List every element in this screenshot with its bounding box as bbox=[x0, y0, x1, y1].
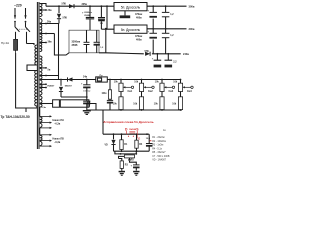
filament winding LN1 bbox=[40, 117, 42, 122]
svg-text:+: + bbox=[148, 31, 150, 34]
tap 75 bbox=[40, 75, 59, 77]
secondary winding S6 bbox=[40, 43, 42, 51]
svg-text:~6,3в: ~6,3в bbox=[54, 141, 61, 144]
choke L2 box bbox=[114, 25, 147, 33]
svg-text:1N4007: 1N4007 bbox=[65, 85, 73, 88]
svg-text:Пр 2А: Пр 2А bbox=[1, 41, 9, 45]
choke L1 box bbox=[114, 3, 147, 11]
pot divider P1 bbox=[120, 79, 122, 81]
rail1 300v bbox=[147, 5, 187, 7]
svg-text:См4: См4 bbox=[187, 90, 192, 93]
svg-text:470мк: 470мк bbox=[135, 13, 143, 16]
svg-text:4: 4 bbox=[128, 135, 130, 138]
svg-text:1000мк: 1000мк bbox=[83, 90, 90, 92]
24v wire from tap bbox=[46, 79, 96, 81]
svg-text:36в: 36в bbox=[48, 41, 53, 44]
svg-text:~220: ~220 bbox=[14, 3, 22, 7]
svg-text:30в: 30в bbox=[47, 21, 52, 24]
rail1 cap C3a bbox=[152, 5, 154, 7]
svg-text:+: + bbox=[148, 9, 150, 12]
svg-text:См1: См1 bbox=[128, 91, 133, 93]
tap 36v bbox=[40, 42, 46, 44]
svg-text:300в: 300в bbox=[189, 4, 195, 8]
svg-text:10,0: 10,0 bbox=[146, 138, 151, 140]
svg-text:100к: 100к bbox=[102, 93, 108, 95]
svg-text:5П6: 5П6 bbox=[145, 51, 150, 53]
subcircuit top wire bbox=[103, 133, 149, 135]
plug prong N bbox=[25, 8, 27, 19]
pot divider P4 bbox=[180, 79, 182, 81]
wire fuse to primary bbox=[16, 53, 37, 108]
cap C1 2200uF bbox=[89, 5, 91, 7]
svg-text:~6,3в: ~6,3в bbox=[54, 123, 61, 126]
cap C8 bbox=[86, 80, 88, 85]
svg-text:240в: 240в bbox=[183, 52, 189, 56]
filament winding LN2 bbox=[40, 123, 42, 127]
svg-text:См2: См2 bbox=[148, 91, 153, 93]
mid wire bbox=[114, 150, 150, 152]
ground C13 bbox=[133, 171, 139, 173]
primary winding bbox=[35, 45, 37, 65]
wire to choke2 bbox=[106, 5, 108, 7]
tap 5v bbox=[40, 67, 46, 69]
svg-text:250В: 250В bbox=[84, 15, 90, 17]
node 24v bbox=[86, 79, 88, 81]
svg-text:С7 - 500 х 400В: С7 - 500 х 400В bbox=[152, 155, 170, 158]
ground R3 bbox=[121, 168, 123, 170]
svg-text:5п. Дроссель: 5п. Дроссель bbox=[121, 28, 141, 32]
svg-text:1в: 1в bbox=[163, 129, 166, 132]
tap b bbox=[40, 87, 46, 89]
secondary winding S4 bbox=[40, 24, 42, 33]
drop to rail3 bbox=[105, 29, 107, 53]
resistor Rb1 bbox=[119, 97, 123, 110]
svg-text:+: + bbox=[81, 82, 83, 85]
transformer T1 core bbox=[36, 2, 38, 149]
switch SA1 bbox=[15, 27, 20, 32]
rail2 300v bbox=[147, 28, 187, 30]
svg-text:См3: См3 bbox=[169, 91, 174, 93]
diode VD5 vertical bbox=[60, 80, 62, 86]
svg-text:1,2: 1,2 bbox=[100, 47, 104, 49]
svg-text:+: + bbox=[152, 57, 154, 60]
svg-text:2,2: 2,2 bbox=[173, 62, 177, 64]
resistor R4 bbox=[136, 134, 138, 140]
secondary winding S3 bbox=[40, 19, 42, 24]
svg-text:5П6: 5П6 bbox=[63, 17, 68, 20]
secondary winding S12 bbox=[40, 88, 42, 95]
svg-text:1,2: 1,2 bbox=[100, 23, 104, 25]
secondary winding S14 bbox=[40, 104, 42, 107]
choke L1 ground bbox=[124, 11, 126, 16]
tap 30v to diode bbox=[40, 23, 59, 25]
cap C11 bbox=[86, 101, 88, 107]
svg-text:10k: 10k bbox=[133, 103, 138, 105]
cap C5 film bbox=[86, 30, 88, 42]
svg-text:1,2: 1,2 bbox=[170, 14, 174, 16]
filament winding LV2 bbox=[40, 141, 42, 146]
resistor R1 bbox=[121, 134, 123, 140]
svg-text:24в: 24в bbox=[83, 76, 88, 79]
secondary winding S5 bbox=[40, 34, 42, 42]
svg-text:10k: 10k bbox=[154, 103, 159, 105]
svg-text:1N4007: 1N4007 bbox=[47, 85, 55, 88]
svg-text:10k: 10k bbox=[155, 82, 160, 84]
svg-text:5п. Дроссель: 5п. Дроссель bbox=[121, 6, 141, 10]
box F3 bbox=[53, 100, 60, 107]
bottom bus bbox=[87, 109, 182, 111]
svg-text:10k: 10k bbox=[114, 82, 119, 84]
winding link2 bbox=[39, 128, 41, 135]
secondary winding S1 bbox=[40, 4, 42, 10]
fuse Пр 2А bbox=[14, 39, 18, 50]
filament taps LV bbox=[40, 134, 51, 136]
rail3 wire bbox=[99, 53, 144, 54]
cap C9 bbox=[83, 100, 90, 102]
svg-text:S: S bbox=[136, 128, 139, 132]
diode VD3 bbox=[145, 52, 150, 56]
svg-text:R4 - 5,1к: R4 - 5,1к bbox=[152, 147, 163, 150]
svg-text:300в: 300в bbox=[189, 27, 195, 31]
svg-text:Исправления слева 5п Дроссель: Исправления слева 5п Дроссель bbox=[103, 120, 154, 124]
svg-text:350В: 350В bbox=[72, 44, 78, 47]
svg-text:20в: 20в bbox=[48, 9, 53, 12]
svg-text:VD - 1N4007: VD - 1N4007 bbox=[152, 159, 166, 162]
svg-text:10k: 10k bbox=[134, 82, 139, 84]
svg-text:1,2: 1,2 bbox=[170, 35, 174, 37]
resistor R3 bbox=[120, 161, 123, 169]
rail1 cap C3b bbox=[165, 5, 167, 7]
svg-text:6,3в: 6,3в bbox=[42, 107, 47, 109]
tap 20v bbox=[40, 9, 46, 11]
tap top lead bbox=[40, 4, 46, 7]
tap a bbox=[40, 83, 46, 85]
svg-text:R1 - 20кОм: R1 - 20кОм bbox=[152, 136, 165, 139]
rail3 cap C7a bbox=[157, 53, 159, 55]
subcircuit feed bbox=[102, 110, 104, 134]
primary bottom tick bbox=[25, 108, 27, 112]
svg-text:R1: R1 bbox=[124, 144, 128, 146]
svg-text:10k: 10k bbox=[113, 103, 118, 105]
red FET symbol bbox=[127, 131, 138, 138]
rail3 cap C7b bbox=[167, 53, 169, 55]
diode VD2 bbox=[58, 5, 60, 7]
svg-text:10k: 10k bbox=[173, 82, 178, 84]
svg-text:R5 - 33кОм*: R5 - 33кОм* bbox=[152, 151, 165, 154]
wiper wire bbox=[130, 161, 137, 165]
cap C10 bbox=[107, 99, 113, 101]
cap C12 bbox=[148, 134, 150, 143]
wire switch to primary top bbox=[27, 44, 35, 46]
secondary winding S8 bbox=[40, 68, 42, 75]
plug prong L bbox=[14, 8, 16, 19]
winding link bbox=[39, 107, 41, 116]
wire pot left to R3 bbox=[119, 156, 125, 158]
svg-text:R4: R4 bbox=[139, 143, 143, 146]
svg-text:R2 - 100кОм: R2 - 100кОм bbox=[152, 140, 166, 143]
svg-text:470мк: 470мк bbox=[135, 35, 143, 38]
resistor Rb4 bbox=[178, 97, 182, 110]
svg-text:R5: R5 bbox=[131, 160, 135, 162]
HV rail top bbox=[46, 5, 114, 7]
tap 6.3 to box bbox=[40, 103, 53, 105]
diode VD4 bbox=[68, 77, 73, 81]
vertical V1 diode chain bbox=[58, 24, 60, 80]
diode VD1 bbox=[69, 4, 74, 8]
secondary winding S11 bbox=[40, 85, 42, 87]
fuse F2 bbox=[96, 77, 108, 82]
pot divider P2 bbox=[141, 79, 143, 81]
secondary winding S9 bbox=[40, 76, 42, 79]
svg-text:Тр ТАН-104/220-50: Тр ТАН-104/220-50 bbox=[1, 115, 30, 119]
low wire bbox=[115, 151, 136, 154]
secondary winding S10 bbox=[40, 80, 42, 84]
svg-text:10k: 10k bbox=[172, 103, 177, 105]
svg-text:4: 4 bbox=[133, 135, 135, 138]
filament taps LN bbox=[40, 115, 51, 117]
svg-text:400в: 400в bbox=[136, 39, 142, 42]
wire A vertical bbox=[54, 34, 69, 56]
secondary winding S2 bbox=[40, 10, 42, 16]
pot divider P3 bbox=[161, 79, 163, 81]
cap C13 bbox=[133, 164, 140, 166]
resistor Rb2 bbox=[139, 97, 143, 110]
svg-text:5в: 5в bbox=[48, 68, 51, 71]
svg-text:+: + bbox=[131, 164, 133, 167]
filter box bbox=[69, 30, 99, 53]
diode VD6 bbox=[113, 134, 115, 139]
ground main bbox=[83, 110, 91, 112]
pot R5 bbox=[124, 155, 134, 158]
cap C2 elec bbox=[101, 5, 103, 7]
secondary winding S7 bbox=[40, 56, 42, 68]
24v bus bbox=[108, 79, 181, 81]
filament winding LV1 bbox=[40, 135, 42, 140]
svg-text:5П6: 5П6 bbox=[62, 3, 67, 6]
tap wire A bbox=[40, 33, 55, 35]
svg-text:400в: 400в bbox=[136, 16, 142, 19]
resistor R6 bbox=[109, 79, 111, 81]
rail2 cap C4b bbox=[165, 28, 167, 30]
svg-text:VD: VD bbox=[105, 144, 109, 146]
resistor Rb3 bbox=[160, 97, 164, 110]
secondary winding S13 bbox=[40, 96, 42, 103]
svg-text:R3 - 1кОм: R3 - 1кОм bbox=[152, 144, 163, 147]
cap C6 3300uF bbox=[96, 30, 98, 42]
svg-text:R3: R3 bbox=[125, 164, 129, 166]
svg-text:305в: 305в bbox=[82, 3, 88, 6]
rail2 cap C4a bbox=[152, 28, 154, 30]
tap 24v rect bbox=[40, 79, 46, 81]
